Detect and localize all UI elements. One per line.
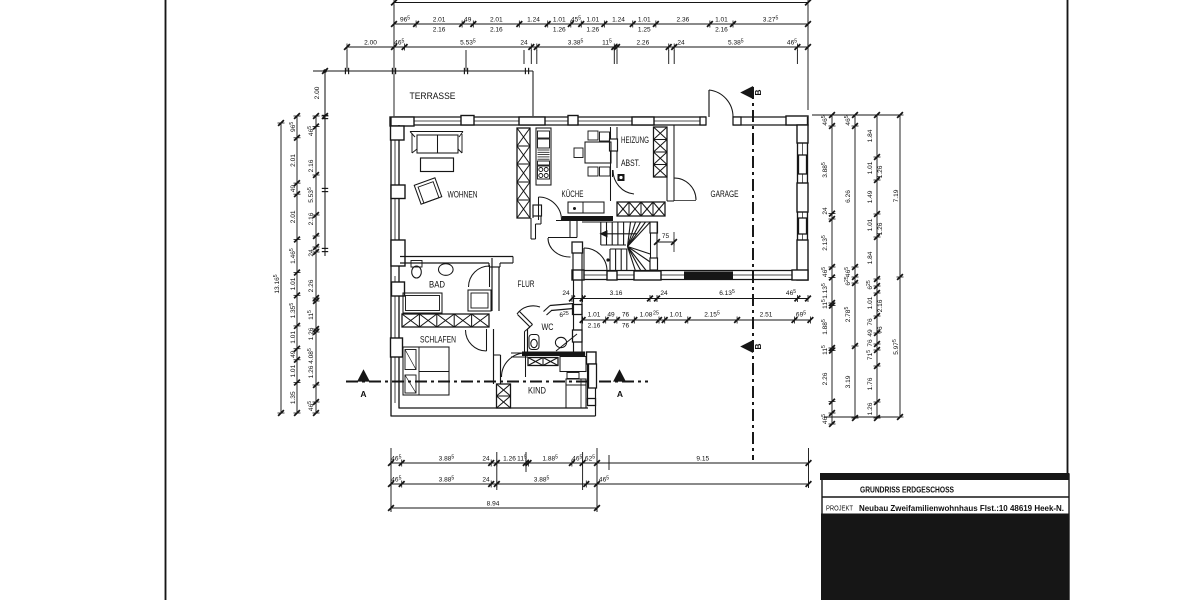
hatched wall wohnen-kueche <box>517 128 530 218</box>
dim right chain 3 <box>876 115 878 418</box>
svg-text:9.15: 9.15 <box>696 456 709 463</box>
svg-text:1.01: 1.01 <box>588 312 601 319</box>
svg-text:76: 76 <box>867 318 874 326</box>
svg-text:1.01: 1.01 <box>586 17 599 24</box>
svg-text:24: 24 <box>520 40 528 47</box>
dim terrace depth 2.00 <box>322 68 328 74</box>
svg-text:1.25: 1.25 <box>638 27 651 34</box>
dim bottom row2 <box>391 483 597 485</box>
wall top pier corner left <box>390 117 414 126</box>
bad sink <box>438 262 454 264</box>
dim top overall line <box>394 2 808 4</box>
title divider <box>822 496 1069 498</box>
garage right glazing <box>802 143 804 183</box>
svg-text:24: 24 <box>308 249 315 257</box>
svg-text:2.16: 2.16 <box>433 27 446 34</box>
svg-text:1.26: 1.26 <box>877 222 884 235</box>
svg-text:24: 24 <box>677 40 685 47</box>
wall left pier 2 <box>391 185 405 199</box>
svg-text:24: 24 <box>562 290 570 297</box>
wall wing right <box>595 352 597 416</box>
svg-text:1.01: 1.01 <box>715 17 728 24</box>
wall bottom garage outer <box>572 279 808 281</box>
svg-text:2.26: 2.26 <box>822 372 829 385</box>
bad toilet <box>411 261 422 268</box>
stairs lower flight <box>609 249 611 271</box>
svg-text:76: 76 <box>877 326 884 334</box>
svg-text:24: 24 <box>822 207 829 215</box>
title block top bar <box>820 473 1069 480</box>
svg-text:A: A <box>360 389 366 399</box>
svg-text:KÜCHE: KÜCHE <box>562 189 584 200</box>
svg-text:B: B <box>753 343 763 349</box>
svg-text:49: 49 <box>290 185 297 193</box>
hatched wall heizung-garage <box>654 127 668 177</box>
dim row garage bottom <box>572 298 808 300</box>
svg-text:76: 76 <box>622 323 630 330</box>
garage right window 2 <box>799 218 807 234</box>
bad bathtub <box>403 293 442 313</box>
section marker A left <box>358 371 369 382</box>
garage bottom pier right <box>792 270 808 280</box>
wall schlafen-corridor <box>493 329 495 384</box>
dim top row1 <box>394 23 808 25</box>
wall top pier heizung <box>632 117 654 125</box>
sofa wohnen <box>410 131 463 133</box>
bed schlafen <box>403 347 449 395</box>
hatched wall heizung-stairs <box>617 202 665 216</box>
dim left chain fine <box>296 116 298 413</box>
wall stairwell right <box>650 222 652 270</box>
svg-text:8.94: 8.94 <box>487 501 500 508</box>
svg-text:1.01: 1.01 <box>638 17 651 24</box>
wall kueche-heizung <box>610 127 612 201</box>
wall bottom wing outer <box>391 415 596 417</box>
svg-text:3.16: 3.16 <box>610 290 623 297</box>
svg-text:2.16: 2.16 <box>588 323 601 330</box>
svg-text:2.26: 2.26 <box>636 40 649 47</box>
kitchen table <box>585 142 611 163</box>
dim top row2 extension lines <box>530 50 532 64</box>
svg-text:GRUNDRISS ERDGESCHOSS: GRUNDRISS ERDGESCHOSS <box>860 486 954 495</box>
svg-text:1.01: 1.01 <box>553 17 566 24</box>
garage right pier 1 <box>797 125 808 143</box>
stairs upper flight <box>582 221 657 223</box>
wall wing right window <box>589 364 597 388</box>
wall left pier 3b <box>392 282 405 296</box>
wall left outer line <box>390 117 392 416</box>
svg-text:24: 24 <box>660 290 668 297</box>
svg-text:2.16: 2.16 <box>490 27 503 34</box>
svg-text:2.01: 2.01 <box>433 17 446 24</box>
hatched wall kind left <box>497 384 511 408</box>
dim row wc corridor <box>583 319 811 321</box>
svg-text:1.76: 1.76 <box>867 377 874 390</box>
svg-text:BAD: BAD <box>429 280 445 291</box>
svg-text:49: 49 <box>607 312 615 319</box>
svg-text:2.16: 2.16 <box>308 212 315 225</box>
section marker A right <box>614 371 625 382</box>
hatched wardrobe bad <box>402 314 489 327</box>
svg-text:1.01: 1.01 <box>290 331 297 344</box>
svg-text:2.00: 2.00 <box>364 40 377 47</box>
garage wall right inner <box>797 125 799 280</box>
svg-text:SCHLAFEN: SCHLAFEN <box>420 335 456 346</box>
svg-text:PROJEKT: PROJEKT <box>826 506 854 513</box>
wall left pier 3 at wohnen-bad wall <box>391 240 405 266</box>
section line B-B <box>752 87 754 460</box>
svg-text:2.00: 2.00 <box>314 86 321 99</box>
svg-text:24: 24 <box>482 477 490 484</box>
dim right chain 1 <box>831 115 833 424</box>
door kueche <box>538 197 540 220</box>
armchair wohnen <box>414 178 442 204</box>
dim right tick line bottom <box>824 416 898 418</box>
section marker B top <box>742 87 753 98</box>
svg-text:1.01: 1.01 <box>867 218 874 231</box>
svg-text:WOHNEN: WOHNEN <box>448 190 478 201</box>
garage right pier 3 <box>797 240 808 280</box>
svg-text:TERRASSE: TERRASSE <box>410 91 456 102</box>
wall wohnen-flur bottom <box>400 256 513 258</box>
boiler symbol heizung <box>618 174 625 181</box>
garage bottom glazing <box>584 274 607 276</box>
svg-text:HEIZUNG: HEIZUNG <box>621 135 649 145</box>
svg-text:1.01: 1.01 <box>290 277 297 290</box>
svg-text:1.26: 1.26 <box>867 402 874 415</box>
svg-text:1.26: 1.26 <box>308 327 315 340</box>
wall top window kitchen <box>568 116 578 126</box>
svg-text:6.26: 6.26 <box>845 190 852 203</box>
page border left <box>165 0 167 600</box>
wall kueche bottom dark <box>562 216 613 221</box>
wall top window living <box>461 116 474 126</box>
svg-text:76: 76 <box>867 339 874 347</box>
svg-text:1.26: 1.26 <box>586 27 599 34</box>
dim left overall 13.16-5 <box>280 123 282 413</box>
svg-text:24: 24 <box>482 456 490 463</box>
wc toilet <box>529 335 539 350</box>
wall abst-garage <box>666 177 668 201</box>
svg-text:ABST.: ABST. <box>621 158 640 168</box>
wall stub below kitchen wall <box>569 221 571 238</box>
svg-text:GARAGE: GARAGE <box>711 189 739 200</box>
door schlafen <box>486 329 488 351</box>
svg-text:1.84: 1.84 <box>867 251 874 264</box>
garage bottom piers <box>572 270 584 280</box>
wall left corner box <box>391 126 405 140</box>
svg-text:75: 75 <box>662 233 670 240</box>
dim bottom extension lines <box>390 448 392 512</box>
wall top jamb garage door <box>700 117 706 125</box>
kind bed <box>566 379 586 408</box>
dim right chain 2 <box>854 115 856 418</box>
wall bad-schlafen edge <box>402 326 489 328</box>
stairs fan <box>628 222 631 247</box>
wall notch at bad door <box>488 263 490 267</box>
svg-text:1.26: 1.26 <box>308 365 315 378</box>
svg-text:1.01: 1.01 <box>867 296 874 309</box>
wc bottom wall dark <box>522 352 585 357</box>
svg-text:WC: WC <box>542 322 554 332</box>
wall top inner line <box>393 124 706 126</box>
title block black area <box>821 514 1069 600</box>
svg-text:1.35: 1.35 <box>290 391 297 404</box>
svg-text:7.19: 7.19 <box>893 189 900 202</box>
wall left pier 4 <box>391 338 403 357</box>
wall bottom garage inner <box>572 270 808 272</box>
wall below wc to kind <box>528 358 558 366</box>
svg-text:2.16: 2.16 <box>715 27 728 34</box>
terrace edge right <box>532 71 534 116</box>
wc wall kink <box>528 325 533 330</box>
svg-text:1.26: 1.26 <box>503 456 516 463</box>
wall bottom wing inner <box>399 407 588 409</box>
dim left chain coarse <box>315 116 317 413</box>
wall right of kind upper <box>581 280 583 352</box>
door abst to garage <box>674 178 696 200</box>
wc wall pier right <box>573 305 583 315</box>
kitchen chairs <box>588 131 598 140</box>
svg-text:1.84: 1.84 <box>867 129 874 142</box>
svg-text:2.36: 2.36 <box>676 17 689 24</box>
section line A-A <box>346 381 648 383</box>
svg-text:2.26: 2.26 <box>308 279 315 292</box>
svg-text:1.01: 1.01 <box>867 161 874 174</box>
svg-text:49: 49 <box>290 350 297 358</box>
kitchen stove <box>538 166 550 179</box>
dim top row2 <box>347 46 808 48</box>
wc jamb lower diagonal <box>520 312 533 325</box>
door kind <box>525 353 527 377</box>
svg-text:76: 76 <box>622 312 630 319</box>
door kueche to heizung <box>612 170 614 177</box>
door flur arm to wohnen <box>548 237 571 239</box>
kitchen tall unit <box>536 128 551 185</box>
svg-text:2.01: 2.01 <box>290 210 297 223</box>
svg-text:1.26: 1.26 <box>877 165 884 178</box>
wc jamb upper diagonal <box>544 306 551 312</box>
svg-text:3.19: 3.19 <box>845 375 852 388</box>
svg-text:2.01: 2.01 <box>490 17 503 24</box>
terrace edge top <box>313 70 533 72</box>
svg-text:2.16: 2.16 <box>308 159 315 172</box>
page border right <box>1067 0 1069 476</box>
svg-text:1.01: 1.01 <box>670 312 683 319</box>
wc door swing <box>517 306 540 314</box>
wall top outer line <box>393 116 706 118</box>
wall left glazing <box>394 140 396 185</box>
garage bottom door dark block <box>684 272 733 280</box>
svg-text:49: 49 <box>867 329 874 337</box>
wall top glazing <box>414 120 519 122</box>
garage right pier 2 <box>797 183 808 212</box>
svg-text:1.01: 1.01 <box>290 364 297 377</box>
svg-text:49: 49 <box>464 17 472 24</box>
svg-text:25: 25 <box>653 311 659 317</box>
svg-text:2.16: 2.16 <box>877 299 884 312</box>
garage right window 1 <box>799 155 807 174</box>
stairs walk line with arrow <box>603 233 637 235</box>
svg-text:2.01: 2.01 <box>290 154 297 167</box>
svg-text:1.08: 1.08 <box>640 312 653 319</box>
bed pillows schlafen <box>405 350 416 370</box>
kind desk <box>560 357 586 372</box>
dim bottom row1 <box>391 462 809 464</box>
svg-text:Neubau Zweifamilienwohnhaus Fl: Neubau Zweifamilienwohnhaus Flst.:10 486… <box>859 504 1064 513</box>
bad shower <box>468 290 491 311</box>
wc left wall <box>527 329 529 352</box>
coffee table wohnen <box>421 158 454 172</box>
dim right chain 4 <box>899 115 901 417</box>
section marker B bottom <box>742 341 753 352</box>
wall wc top <box>550 304 574 306</box>
garage wall right outer <box>807 117 809 280</box>
svg-text:1.49: 1.49 <box>867 190 874 203</box>
svg-text:A: A <box>617 389 623 399</box>
wall top pier garage right <box>786 116 808 125</box>
svg-text:1.24: 1.24 <box>527 17 540 24</box>
door flur to bad <box>489 265 491 287</box>
svg-text:KIND: KIND <box>528 386 546 397</box>
wall left inner line <box>398 125 400 256</box>
wall wing right bottom notch <box>588 399 596 406</box>
wall flur-bad <box>491 258 493 311</box>
door flur to stairs <box>583 248 585 271</box>
garage door leaf and swing <box>708 90 710 117</box>
svg-text:1.24: 1.24 <box>612 17 625 24</box>
terrace edge left <box>324 71 326 256</box>
kitchen wall left lower <box>530 218 532 239</box>
dim right tick line top <box>812 114 900 116</box>
svg-text:B: B <box>753 89 763 95</box>
dim bottom row3 8.94 <box>391 507 597 509</box>
wall top pier kitchen <box>519 117 545 125</box>
svg-text:2.51: 2.51 <box>760 312 773 319</box>
dim stairwell 75 <box>657 241 674 243</box>
kitchen lower counter <box>568 202 604 213</box>
svg-text:1.26: 1.26 <box>553 27 566 34</box>
wc corner sink <box>556 334 577 351</box>
svg-text:FLUR: FLUR <box>518 279 535 290</box>
wall stairwell left <box>572 242 574 280</box>
title block frame <box>822 474 1069 600</box>
